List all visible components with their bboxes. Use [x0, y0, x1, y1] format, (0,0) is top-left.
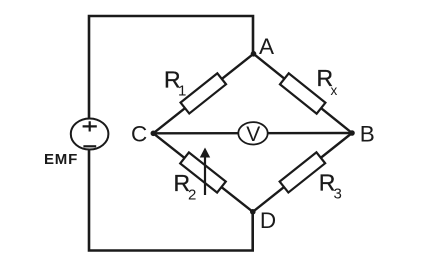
resistor R3 — [280, 152, 325, 192]
resistor R2 — [180, 152, 226, 192]
svg-text:2: 2 — [188, 187, 196, 204]
svg-text:EMF: EMF — [44, 151, 78, 168]
svg-text:3: 3 — [334, 186, 342, 203]
svg-text:x: x — [331, 83, 338, 98]
svg-text:B: B — [360, 121, 375, 146]
svg-text:A: A — [259, 34, 274, 59]
EMF plus — [83, 121, 97, 131]
EMF minus — [83, 145, 96, 147]
svg-text:D: D — [260, 208, 276, 233]
wire bottom loop D to EMF — [89, 148, 253, 251]
node B — [349, 130, 355, 136]
wire arm C-D — [153, 133, 253, 212]
node A — [251, 51, 257, 57]
wire C-B through meter — [153, 132, 352, 135]
resistor Rx — [280, 73, 325, 113]
node D — [250, 209, 256, 215]
voltmeter V — [238, 122, 267, 144]
node C — [151, 131, 157, 137]
wire top loop EMF to A — [89, 16, 253, 120]
EMF source — [71, 119, 109, 150]
svg-text:1: 1 — [178, 83, 186, 100]
svg-text:C: C — [131, 122, 147, 147]
wire arm D-B — [253, 133, 352, 212]
R2 wiper arrow — [204, 156, 206, 195]
wire arm A-B — [254, 54, 353, 133]
wire arm C-A — [153, 54, 253, 134]
svg-text:V: V — [246, 123, 260, 146]
resistor R1 — [181, 73, 226, 113]
